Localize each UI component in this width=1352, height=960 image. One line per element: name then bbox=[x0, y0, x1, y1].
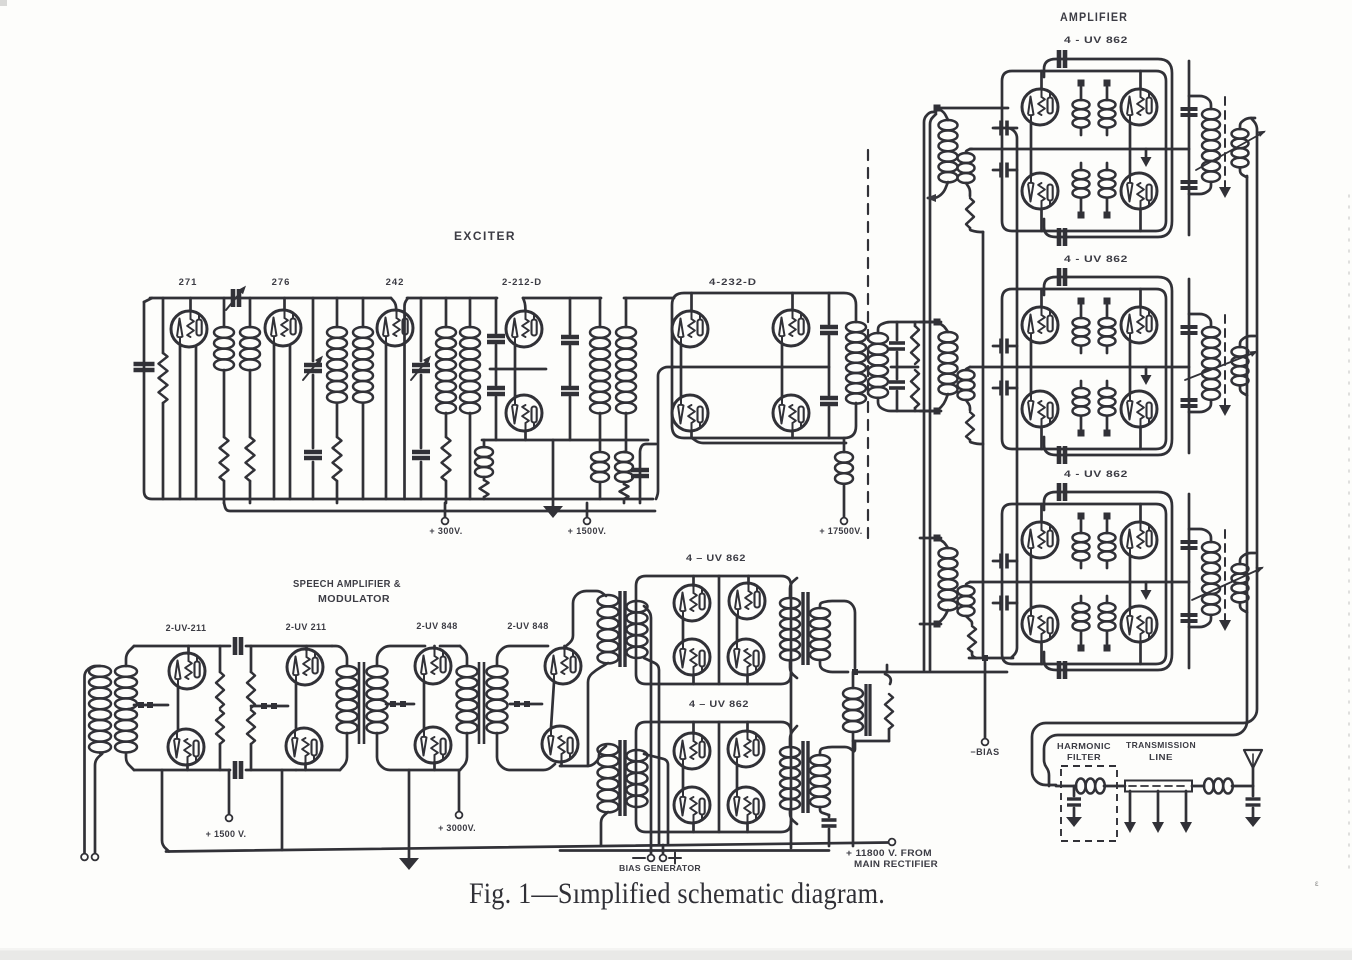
label 4-232-D bbox=[709, 277, 757, 288]
svg-text:+ 300V.: + 300V. bbox=[429, 526, 462, 536]
transformer T1 primary bbox=[214, 298, 234, 437]
wire 2-212 bottom rail bbox=[482, 439, 648, 442]
scan artifact right edge bbox=[1348, 195, 1350, 875]
label 4-UV 862 block 2 bbox=[1064, 254, 1128, 265]
resistor amp1 grid leak bbox=[966, 183, 983, 232]
wire amp3 mid line bbox=[970, 581, 1189, 584]
transformer T-MO1 core bbox=[803, 592, 808, 665]
terminal +17500V bbox=[841, 518, 848, 525]
wire speech input leads bbox=[85, 666, 103, 853]
transformer speech-input primary bbox=[89, 666, 111, 752]
transformer T-M1 secondary bbox=[627, 601, 648, 658]
resistor under T3 bbox=[442, 437, 451, 503]
tube 4-232-D D bbox=[773, 367, 809, 438]
capacitor stage-3 bypass bbox=[412, 452, 430, 458]
tube UV-862 mod L4 bbox=[728, 765, 764, 832]
tube 4-232-D B bbox=[773, 293, 809, 367]
tube UV-862 mod U3 bbox=[674, 619, 710, 684]
wire RC pair caps column bbox=[896, 322, 899, 411]
wire amp2 tank vertical bbox=[1188, 279, 1191, 453]
wire 2-212 plate cap column bbox=[569, 298, 572, 440]
svg-text:2-UV 211: 2-UV 211 bbox=[286, 622, 327, 632]
transformer T-M1 core bbox=[620, 591, 625, 667]
wire amp1 inner box bbox=[1002, 71, 1166, 231]
capacitor 4-232 lower bbox=[820, 398, 838, 404]
label FILTER bbox=[1067, 752, 1101, 762]
wire speech bus left riser bbox=[162, 770, 169, 852]
label +3000V bbox=[438, 823, 476, 833]
svg-text:BIAS GENERATOR: BIAS GENERATOR bbox=[619, 863, 701, 873]
inductor amp1 lower pair bbox=[1073, 163, 1116, 211]
transformer T-CD primary bbox=[457, 666, 478, 770]
wire exciter top rail segment 4 bbox=[624, 297, 674, 300]
svg-text:AMPLIFIER: AMPLIFIER bbox=[1060, 12, 1128, 24]
transmission line box bbox=[1125, 781, 1192, 792]
wire feeder inner bbox=[1044, 176, 1247, 786]
tube UV-862 mod U4 bbox=[728, 617, 764, 684]
wire block-left vertical bbox=[995, 128, 1017, 658]
wire 4-232 neutralizing column bbox=[828, 293, 831, 438]
label 4-UV 862 modulator upper bbox=[686, 553, 746, 564]
tube 271 bbox=[171, 298, 207, 347]
wire 4-232 mid line bbox=[672, 367, 846, 443]
junction amp2 feed bottom bbox=[934, 408, 941, 415]
wire amp3 inner box bbox=[1002, 504, 1166, 664]
tube 4-232-D A bbox=[672, 293, 708, 367]
transformer T-CD core bbox=[479, 662, 484, 744]
ground tap 2 bbox=[1152, 791, 1164, 833]
arrow amp3 mid bbox=[1141, 582, 1152, 600]
capacitor T4 branch bbox=[631, 470, 649, 476]
rf choke +17500 bbox=[835, 438, 853, 517]
wire exciter grid return bbox=[656, 367, 674, 499]
tube 2-UV-848 D upper bbox=[545, 646, 581, 684]
capacitor amp1 tank upper bbox=[1181, 109, 1198, 115]
rf choke under 2-212 bbox=[475, 440, 493, 499]
wire amp1 tank vertical bbox=[1188, 61, 1191, 235]
arrow amp2 tuning bbox=[1185, 351, 1258, 380]
junction grid B bbox=[261, 703, 277, 709]
transformer T-M1 primary bbox=[588, 595, 619, 766]
wire grid line stage A bbox=[134, 704, 168, 707]
svg-text:2-UV 848: 2-UV 848 bbox=[416, 621, 457, 631]
title SPEECH AMPLIFIER & bbox=[293, 579, 401, 590]
junction amp1 lower bbox=[1078, 212, 1111, 219]
tube 2-212-D upper bbox=[506, 311, 542, 347]
inductor amp2 upper pair bbox=[1073, 305, 1116, 353]
capacitor amp3 top rail bbox=[1059, 483, 1065, 501]
label +300V bbox=[429, 526, 462, 536]
svg-text:EXCITER: EXCITER bbox=[454, 231, 516, 243]
rf choke under T4 right bbox=[615, 452, 633, 503]
capacitor modulator output bbox=[822, 815, 837, 846]
scan artifact top left corner bbox=[0, 0, 7, 6]
capacitor amp2 tank upper bbox=[1181, 327, 1198, 333]
svg-text:4 - UV 862: 4 - UV 862 bbox=[1064, 35, 1128, 46]
junction amp3 lower bbox=[1078, 645, 1111, 652]
svg-text:Fig. 1—Sımplified schematic di: Fig. 1—Sımplified schematic diagram. bbox=[469, 877, 885, 910]
resistor column A1 bbox=[216, 646, 224, 770]
wire grid bus vertical bbox=[982, 232, 985, 656]
caption Fig. 1 bbox=[469, 877, 885, 910]
label TRANSMISSION bbox=[1126, 740, 1196, 750]
transformer T-AB secondary bbox=[367, 646, 461, 770]
wire mod-lower center bbox=[718, 722, 721, 832]
transformer amp3 grid primary bbox=[937, 538, 958, 624]
label +11800 line2 bbox=[854, 859, 938, 869]
wire amp2 outer rail bbox=[1044, 277, 1172, 455]
svg-text:FILTER: FILTER bbox=[1067, 752, 1101, 762]
tube 2-212-D lower bbox=[506, 345, 542, 440]
tube UV-862 amp2 TL bbox=[1022, 289, 1058, 367]
svg-text:+ 1500V.: + 1500V. bbox=[568, 526, 607, 536]
resistor under T2 bbox=[333, 437, 342, 503]
label 276 bbox=[272, 277, 291, 288]
tube 242 bbox=[377, 310, 413, 346]
terminal +300V bbox=[442, 503, 449, 524]
wire 2-212 grid cap column bbox=[495, 298, 498, 440]
capacitor amp1 bottom rail bbox=[1059, 228, 1065, 246]
capacitor 2-212 plate upper bbox=[561, 337, 579, 343]
ground harmonic filter bbox=[1066, 817, 1082, 827]
transformer T3 secondary bbox=[460, 298, 480, 499]
junction amp2 lower bbox=[1078, 430, 1111, 437]
arrow amp3 tuning bbox=[1192, 567, 1264, 600]
capacitor speech bottom rail bbox=[235, 761, 241, 779]
wire tube-271 legs bbox=[180, 345, 196, 499]
transformer T-CD secondary bbox=[487, 646, 556, 770]
transformer T4 primary bbox=[590, 298, 610, 450]
tube UV-862 amp1 BL bbox=[1022, 149, 1058, 231]
transformer T-M2 primary bbox=[598, 744, 619, 845]
wire amp3 tank vertical bbox=[1188, 494, 1191, 668]
transformer T5 secondary bbox=[868, 322, 934, 411]
tube UV-862 amp1 TR bbox=[1121, 71, 1157, 149]
resistor under T1 left bbox=[220, 437, 229, 503]
resistor RC lower bbox=[911, 370, 919, 411]
label 4-UV 862 block 1 bbox=[1064, 35, 1128, 46]
resistor under T1 right bbox=[246, 437, 255, 503]
label 271 bbox=[179, 277, 198, 288]
resistor amp2 grid leak bbox=[966, 400, 983, 444]
tube 2-UV-848 C upper bbox=[415, 646, 451, 684]
inductor amp1 upper pair bbox=[1073, 87, 1116, 135]
tube UV-862 amp2 BR bbox=[1121, 367, 1157, 449]
transformer T-M2 secondary bbox=[627, 750, 648, 807]
label BIAS GENERATOR bbox=[619, 863, 701, 873]
wire stage-A drop to bus bbox=[281, 770, 284, 850]
wire grid line stage D2 bbox=[510, 703, 542, 706]
svg-text:+ 1500 V.: + 1500 V. bbox=[206, 829, 247, 839]
svg-text:LINE: LINE bbox=[1149, 752, 1173, 762]
label LINE bbox=[1149, 752, 1173, 762]
terminal +1500V exciter bbox=[584, 503, 591, 524]
wire amp1 mid line bbox=[970, 148, 1189, 151]
svg-text:4 - UV 862: 4 - UV 862 bbox=[1064, 254, 1128, 265]
transformer speech-input secondary bbox=[115, 646, 137, 770]
wire D cathode to modulator T-M2 bbox=[560, 746, 606, 766]
inductor amp3 upper pair bbox=[1073, 520, 1116, 568]
wire grid line stage B bbox=[251, 705, 288, 708]
terminal -BIAS bbox=[982, 739, 989, 746]
svg-text:4 - UV 862: 4 - UV 862 bbox=[1064, 469, 1128, 480]
wire mod-upper box bbox=[636, 576, 791, 684]
label 2-UV-211 first bbox=[166, 623, 207, 633]
inductor amp1 coupling bbox=[1232, 118, 1256, 177]
resistor RC upper bbox=[911, 322, 919, 364]
inductor harmonic filter bbox=[1076, 779, 1105, 794]
resistor under 2-212 choke bbox=[480, 480, 489, 497]
wire bias return line bbox=[969, 655, 1013, 661]
harmonic filter dashed box bbox=[1061, 766, 1117, 841]
tube UV-862 amp2 TR bbox=[1121, 289, 1157, 367]
arrow amp1 mid bbox=[1141, 149, 1152, 167]
transformer T-MO2 core bbox=[803, 741, 808, 813]
label 4-UV 862 modulator lower bbox=[689, 699, 749, 710]
wire exciter top rail segment 2 bbox=[405, 298, 498, 499]
tube UV-862 mod L1 bbox=[674, 722, 710, 769]
resistor column A2 bbox=[247, 646, 255, 770]
junction amp1 upper bbox=[1078, 80, 1111, 87]
terminal +1500V speech bbox=[226, 770, 233, 821]
capacitor 4-232 upper bbox=[820, 327, 838, 333]
capacitor left edge bbox=[134, 364, 155, 370]
inductor line coupling bbox=[1204, 779, 1233, 794]
label 2-212-D bbox=[502, 277, 542, 288]
transformer T-M2 core bbox=[620, 740, 625, 816]
tube 276 bbox=[265, 298, 301, 346]
tube UV-862 mod L3 bbox=[674, 767, 710, 832]
dashed divider line bbox=[867, 150, 869, 545]
inductor amp3 lower pair bbox=[1073, 596, 1116, 644]
tube 2-UV-211 B lower bbox=[286, 683, 322, 770]
ground tap 1 bbox=[1124, 791, 1136, 833]
svg-text:2-UV 848: 2-UV 848 bbox=[507, 621, 548, 631]
capacitor RC upper bbox=[889, 343, 905, 349]
transformer T3 primary bbox=[436, 298, 456, 437]
terminal speech input left bbox=[81, 854, 88, 861]
dashed arrow amp1 bbox=[1219, 97, 1231, 198]
title MODULATOR bbox=[318, 594, 390, 605]
wire speech bottom rail A bbox=[134, 769, 296, 772]
tube UV-862 mod L2 bbox=[728, 722, 764, 767]
wire 2-212 grid mid line bbox=[490, 368, 546, 371]
wire bottom rail B bbox=[296, 733, 347, 770]
wire amp1 outer rail bbox=[1044, 59, 1172, 237]
capacitor harmonic filter bbox=[1067, 786, 1081, 817]
transformer T2 primary bbox=[327, 298, 347, 437]
dashed arrow amp3 bbox=[1219, 530, 1231, 631]
resistor damping bbox=[885, 665, 893, 741]
variable capacitor stage-3 bbox=[411, 298, 431, 499]
tube UV-862 amp2 BL bbox=[1022, 367, 1058, 449]
wire amp2 feed bottom bbox=[920, 410, 941, 413]
capacitor amp3 tank upper bbox=[1181, 542, 1198, 548]
capacitor 2-212 grid upper bbox=[487, 336, 505, 342]
junction amp2 feed top bbox=[934, 319, 941, 326]
arrow amp2 mid bbox=[1141, 367, 1152, 385]
wire tube-242 legs bbox=[385, 344, 388, 499]
label 242 bbox=[386, 277, 405, 288]
ground speech bbox=[399, 770, 419, 870]
tube UV-862 mod U1 bbox=[674, 576, 710, 621]
wire bias terminal drop bbox=[984, 658, 987, 738]
terminal +11800 bbox=[889, 839, 896, 846]
wire modulated B+ line bbox=[852, 669, 1007, 675]
terminal speech input right bbox=[92, 854, 99, 861]
wire RC mid tie bbox=[891, 366, 918, 369]
inductor amp2 tank bbox=[1189, 314, 1220, 412]
label 2-UV 848 second bbox=[507, 621, 548, 631]
tube UV-862 amp1 BR bbox=[1121, 149, 1157, 231]
arrow amp1 tuning bbox=[1196, 131, 1266, 170]
transformer amp1 grid secondary bbox=[958, 149, 975, 183]
dashed arrow amp2 bbox=[1219, 315, 1231, 416]
title EXCITER bbox=[454, 231, 516, 243]
tube 2-UV-211 A upper bbox=[169, 646, 205, 689]
capacitor stage-2 bypass bbox=[304, 452, 322, 458]
tube UV-862 amp3 TL bbox=[1022, 504, 1058, 582]
wire amp3 feed bottom bbox=[920, 623, 941, 626]
label 2-UV-211 second bbox=[286, 622, 327, 632]
resistor stage-1 grid leak bbox=[159, 298, 168, 499]
wire rail corner tube 242 bbox=[391, 298, 397, 311]
inductor amp3 coupling bbox=[1232, 553, 1256, 612]
wire mod-lower box bbox=[636, 722, 791, 832]
ground tap 3 bbox=[1180, 791, 1192, 833]
tube UV-862 amp1 TL bbox=[1022, 71, 1058, 149]
wire amp3 feed top bbox=[920, 537, 941, 540]
svg-text:ε: ε bbox=[1315, 879, 1319, 888]
label +1500V speech bbox=[206, 829, 247, 839]
transformer amp2 grid primary bbox=[937, 322, 958, 411]
wire speech bottom bus bbox=[166, 843, 889, 852]
svg-text:MAIN RECTIFIER: MAIN RECTIFIER bbox=[854, 859, 938, 869]
wire rail C to T-CD bbox=[440, 646, 467, 666]
transformer T5 primary bbox=[846, 322, 866, 404]
inductor amp2 coupling bbox=[1232, 336, 1256, 395]
capacitor amp2 grid lower bbox=[993, 381, 1017, 396]
transformer amp1 grid primary bbox=[926, 108, 958, 202]
wire feeder outer bbox=[1032, 118, 1257, 785]
inductor amp3 tank bbox=[1189, 529, 1220, 627]
capacitor amp3 grid upper bbox=[993, 554, 1017, 569]
rf choke under T4 left bbox=[591, 452, 609, 499]
transformer T-MO1 primary bbox=[780, 578, 800, 678]
tube 2-UV-211 B upper bbox=[287, 646, 323, 685]
inductor amp1 tank bbox=[1189, 96, 1220, 194]
tube 2-UV-211 A lower bbox=[168, 687, 204, 770]
transformer T1 secondary bbox=[240, 298, 260, 437]
capacitor speech top rail bbox=[235, 637, 241, 655]
wire amp1 feed line bbox=[934, 105, 1009, 112]
wire bias feed lines bbox=[644, 606, 668, 845]
transformer T-AB core bbox=[359, 662, 364, 744]
tube UV-862 amp3 BR bbox=[1121, 582, 1157, 664]
antenna bbox=[1244, 750, 1262, 786]
capacitor amp1 top rail bbox=[1059, 50, 1065, 68]
label +17500V bbox=[819, 526, 862, 536]
variable capacitor stage-1 tank bbox=[226, 286, 246, 310]
tube 2-UV-848 C lower bbox=[415, 682, 451, 770]
modulation reactor coil bbox=[843, 672, 863, 741]
svg-text:+ 3000V.: + 3000V. bbox=[438, 823, 476, 833]
tube 2-UV-848 D lower bbox=[542, 682, 578, 766]
wire mod-upper center bbox=[718, 576, 721, 684]
wire grid line stage D bbox=[386, 703, 414, 706]
transformer amp2 grid secondary bbox=[958, 367, 975, 400]
capacitor amp2 top rail bbox=[1059, 268, 1065, 286]
resistor amp3 grid leak bbox=[966, 616, 976, 658]
terminal +3000V bbox=[456, 770, 463, 818]
junction grid D2 bbox=[514, 701, 530, 707]
wire D plate to modulator T-M1 bbox=[566, 591, 606, 646]
junction amp3 upper bbox=[1078, 513, 1111, 520]
transformer T-MO1 secondary bbox=[810, 601, 855, 672]
svg-text:SPEECH AMPLIFIER &: SPEECH AMPLIFIER & bbox=[293, 579, 401, 590]
ground exciter bbox=[543, 440, 563, 518]
label -BIAS bbox=[970, 747, 999, 757]
svg-text:+ 11800 V. FROM: + 11800 V. FROM bbox=[846, 848, 932, 858]
label HARMONIC bbox=[1057, 741, 1111, 751]
terminal bias minus bbox=[633, 845, 654, 861]
page bottom edge band bbox=[0, 948, 1352, 960]
ground antenna bbox=[1245, 817, 1261, 827]
resistor under T4 right bbox=[620, 484, 629, 499]
svg-text:MODULATOR: MODULATOR bbox=[318, 594, 390, 605]
capacitor amp3 bottom rail bbox=[1059, 661, 1065, 679]
svg-text:4 – UV 862: 4 – UV 862 bbox=[689, 699, 749, 710]
wire amp2 mid line bbox=[970, 366, 1189, 369]
wire amp2 feed top bbox=[920, 321, 941, 324]
wire plate feed vertical 1 bbox=[924, 112, 936, 670]
junction grid A bbox=[138, 702, 153, 708]
capacitor RC lower bbox=[889, 382, 905, 388]
tube UV-862 amp3 TR bbox=[1121, 504, 1157, 582]
svg-text:2-212-D: 2-212-D bbox=[502, 277, 542, 288]
svg-text:+ 17500V.: + 17500V. bbox=[819, 526, 862, 536]
wire 4-232 ring bbox=[672, 293, 856, 438]
capacitor amp3 grid lower bbox=[993, 596, 1017, 611]
wire speech top rail A bbox=[134, 645, 332, 648]
capacitor antenna bbox=[1246, 786, 1261, 817]
capacitor amp2 tank lower bbox=[1181, 400, 1198, 406]
label 2-UV 848 first bbox=[416, 621, 457, 631]
wire plate feed vertical 2 bbox=[930, 114, 936, 670]
wire cap branch x640 bbox=[640, 444, 656, 503]
junction amp3 feed bottom bbox=[934, 621, 941, 628]
terminal bias plus bbox=[660, 845, 681, 864]
junction amp3 feed top bbox=[934, 535, 941, 542]
label 4-UV 862 block 3 bbox=[1064, 469, 1128, 480]
variable capacitor stage-2 bbox=[303, 298, 323, 499]
capacitor amp2 grid upper bbox=[993, 339, 1017, 354]
wire exciter top rail segment 3 bbox=[523, 298, 601, 311]
label +11800 line1 bbox=[846, 848, 932, 858]
transformer T-AB primary bbox=[337, 666, 358, 733]
capacitor amp1 grid upper bbox=[993, 121, 1017, 136]
modulation reactor core bbox=[866, 684, 870, 736]
wire amp2 inner box bbox=[1002, 289, 1166, 449]
transformer T-MO2 secondary bbox=[810, 741, 855, 815]
svg-text:2-UV-211: 2-UV-211 bbox=[166, 623, 207, 633]
svg-text:TRANSMISSION: TRANSMISSION bbox=[1126, 740, 1196, 750]
wire output main bbox=[1056, 785, 1253, 788]
wire exciter bottom bus 2 bbox=[224, 503, 655, 511]
tube 4-232-D C bbox=[672, 367, 708, 438]
wire mod blocks right connector bbox=[790, 674, 793, 848]
wire amp3 outer rail bbox=[1044, 492, 1172, 670]
